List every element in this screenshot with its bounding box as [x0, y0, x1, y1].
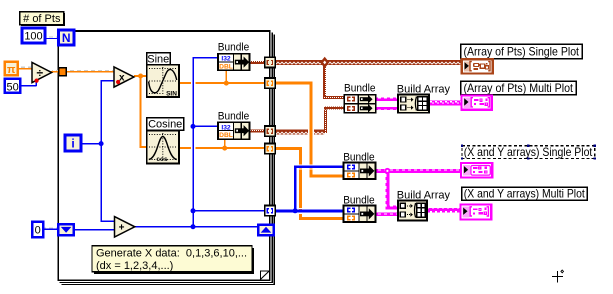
- junction: diamond on array-of-points wire: [320, 57, 329, 68]
- Bundle row 1: [344, 95, 376, 104]
- label: Sine: [147, 53, 171, 65]
- wire: divide output through left tunnel to multiply: [51, 71, 114, 72]
- wire: Bundle2 output to tunnel T3 (cluster): [250, 130, 265, 133]
- for-loop frame stacked shadow line 2: [60, 33, 273, 284]
- comment: Generate X data: [92, 246, 254, 274]
- svg-text:SIN: SIN: [166, 91, 177, 98]
- tunnel T3: array of points (cosine): [265, 126, 275, 136]
- Bundle node 6: [344, 206, 376, 223]
- white gap: orange vertical crossing brown T3 wire: [308, 130, 309, 135]
- label: Cosine: [147, 118, 184, 131]
- wire: Cosine output to junction, Bundle2 DBL and tunnel T4: [179, 147, 265, 149]
- for-loop page-fold corner: [260, 271, 269, 280]
- Bundle node 5: [344, 163, 376, 180]
- Build Array node 2: [398, 200, 427, 220]
- svg-text:100: 100: [24, 30, 42, 42]
- svg-text:Bundle: Bundle: [218, 111, 250, 123]
- Bundle node 2: [218, 122, 249, 139]
- junction dot: X array branch outside loop: [293, 208, 298, 213]
- svg-text:50: 50: [6, 81, 18, 93]
- wire: Bundle1 output to tunnel T1 (cluster): [250, 61, 265, 64]
- multiply node: [114, 67, 134, 87]
- svg-text:i: i: [71, 137, 74, 151]
- coercion dot on divide: [35, 79, 39, 83]
- indicator: (Array of Pts) Multi Plot terminal: [461, 95, 491, 109]
- terminal i (iteration): [65, 135, 81, 151]
- label: (X and Y arrays) Multi Plot: [462, 187, 587, 201]
- svg-text:π: π: [7, 64, 16, 76]
- svg-text:# of Pts: # of Pts: [23, 13, 61, 25]
- tunnel T2: sine array: [265, 78, 275, 88]
- junction dot: X vertical at Bundle2 feed: [191, 124, 196, 129]
- divide node: [32, 62, 52, 82]
- wire: T2 sine array down to Bundle5 lower input: [276, 82, 313, 85]
- right shift register (up arrow): [258, 225, 274, 236]
- constant 50: [5, 79, 20, 94]
- wire: Build Array 1 output to (Array of Pts) Multi Plot indicator: [429, 101, 461, 106]
- svg-text:cos: cos: [156, 156, 168, 163]
- wire: Bundle row1 output to Build Array 1: [376, 98, 398, 101]
- wire: multiply output to junction and Sine input: [134, 75, 147, 77]
- constant pi: [5, 62, 18, 76]
- wire: branch down from diamond junction to Bundle row1: [323, 65, 326, 98]
- wire: T1 to (Array of Pts) Single Plot indicator (array of clusters): [276, 60, 462, 65]
- wire: pi constant to divide: [18, 68, 32, 69]
- wire: X-data vertical x=192.5 feeding Bundle1/Bundle2/T5: [192, 57, 194, 227]
- Build Array node 1: [398, 95, 429, 113]
- svg-text:I32: I32: [221, 124, 231, 131]
- junction: pink ring on Bundle5 output: [384, 168, 390, 174]
- tunnel T4: cosine array: [265, 144, 275, 154]
- svg-text:Bundle: Bundle: [344, 83, 376, 95]
- label: (Array of Pts) Single Plot: [461, 44, 582, 58]
- svg-text:(X and Y arrays) Multi Plot: (X and Y arrays) Multi Plot: [464, 187, 586, 201]
- coercion dot on multiply: [116, 80, 120, 84]
- svg-text:(Array of Pts) Single Plot: (Array of Pts) Single Plot: [464, 44, 580, 58]
- tunnel T5: X data array: [265, 206, 275, 216]
- svg-text:0: 0: [35, 225, 41, 237]
- svg-text:(Array of Pts) Multi Plot: (Array of Pts) Multi Plot: [464, 81, 574, 95]
- for-loop frame stacked shadow line 3: [62, 35, 275, 286]
- Sine VI icon: [147, 65, 179, 98]
- for-loop frame main rectangle: [58, 30, 271, 281]
- wire: Sine output to junction, Bundle1 DBL and tunnel T2: [179, 82, 265, 84]
- wire: left shift register to add lower input: [74, 229, 115, 230]
- junction dot: multiply output: [138, 74, 143, 79]
- svg-text:N: N: [62, 31, 71, 45]
- left shift register (down arrow): [58, 224, 74, 235]
- label: (X and Y arrays) Single Plot (selected, dashed border): [461, 145, 596, 160]
- svg-text:DBL: DBL: [219, 63, 233, 70]
- label: (Array of Pts) Multi Plot: [461, 81, 576, 95]
- wire: add output to right shift register: [135, 226, 258, 227]
- svg-text:I32: I32: [221, 56, 231, 63]
- mouse cursor crosshair: [552, 270, 564, 283]
- wire: T3 to Bundle row2 (array of clusters): [276, 130, 325, 135]
- svg-text:+: +: [119, 223, 125, 234]
- wire: T4 cosine array down to Bundle6 lower input: [276, 147, 303, 150]
- numeric control 100: [22, 28, 45, 43]
- Bundle node 1: [218, 54, 249, 71]
- wire: Bundle6 output to Build Array 2: [376, 212, 398, 216]
- terminal N (loop count): [59, 30, 74, 45]
- svg-text:Sine: Sine: [147, 53, 169, 65]
- tunnel on left border (scalar): [59, 68, 67, 76]
- wire: 0 constant to left shift register: [44, 229, 59, 230]
- constant 0: [32, 222, 43, 237]
- indicator: (Array of Pts) Single Plot terminal: [462, 59, 493, 73]
- svg-text:(dx = 1,2,3,4,...): (dx = 1,2,3,4,...): [96, 260, 173, 272]
- svg-text:Cosine: Cosine: [148, 119, 182, 131]
- svg-text:Bundle: Bundle: [218, 42, 250, 54]
- white gaps where blue wires cross orange: [191, 82, 192, 85]
- wire: Bundle row2 output to Build Array 1: [376, 107, 398, 110]
- indicator: (X and Y arrays) Single Plot terminal: [461, 163, 492, 178]
- wire: 50 constant to divide lower input: [20, 85, 37, 86]
- label: # of Pts: [20, 12, 65, 26]
- junction dot: X vertical at T5 feed: [191, 208, 196, 213]
- svg-text:Generate X data: 0,1,3,6,10,.: Generate X data: 0,1,3,6,10,...: [96, 247, 247, 259]
- junction dot: X vertical at add output: [191, 224, 196, 229]
- Cosine VI icon: [147, 131, 179, 164]
- wire: Bundle5 output to (X and Y arrays) Single Plot and branch to Build Array 2: [376, 169, 462, 173]
- svg-text:DBL: DBL: [219, 132, 233, 139]
- junction dot: i wire: [99, 141, 104, 146]
- Bundle row 2: [344, 104, 376, 113]
- wire: i terminal to junction: [81, 143, 101, 144]
- add node: [115, 217, 135, 237]
- wire: T5 X array to Bundle6 upper input: [276, 209, 344, 212]
- wire: vertical x=101 from multiply input down to add upper input: [100, 80, 102, 222]
- wire: X array branch up to Bundle5 upper input: [294, 166, 297, 211]
- tunnel T1: array of points (sine): [265, 57, 275, 67]
- svg-text:÷: ÷: [37, 66, 44, 80]
- wire: Build Array 2 output to (X and Y arrays) Multi Plot indicator: [427, 208, 460, 213]
- wire: vertical down to Cosine input: [140, 75, 142, 147]
- junction dot: sine output / Bundle1 DBL: [224, 81, 229, 86]
- wire: 100 control to N terminal: [45, 38, 59, 39]
- junction dot: cosine output / Bundle2 DBL: [222, 146, 227, 151]
- indicator: (X and Y arrays) Multi Plot terminal: [460, 204, 491, 219]
